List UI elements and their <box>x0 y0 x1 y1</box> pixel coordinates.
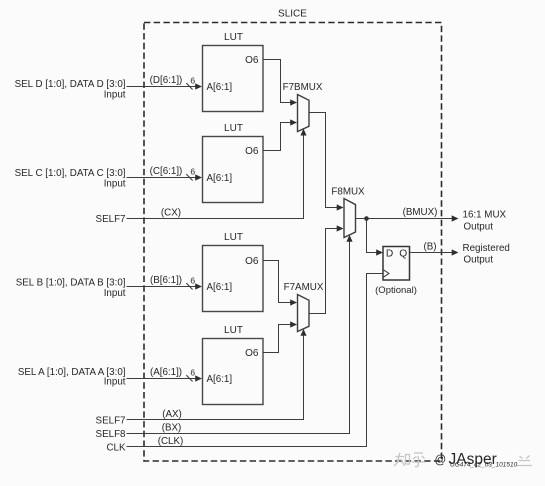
svg-text:F7AMUX: F7AMUX <box>284 282 324 293</box>
output label Registered Output <box>463 243 510 266</box>
wire input C bus (C[6:1]) <box>127 166 203 181</box>
svg-text:6: 6 <box>190 276 195 286</box>
svg-text:O6: O6 <box>245 146 259 157</box>
svg-text:(BMUX): (BMUX) <box>403 207 438 218</box>
wire F8MUX output (BMUX) <box>356 207 459 222</box>
svg-text:@: @ <box>435 455 447 467</box>
svg-text:6: 6 <box>190 76 195 86</box>
svg-text:(B[6:1]): (B[6:1]) <box>150 275 182 286</box>
svg-text:D: D <box>386 248 393 259</box>
wire LUT D O6 to F7BMUX in0 <box>263 60 297 106</box>
svg-text:(CX): (CX) <box>161 207 181 218</box>
flip-flop FF (Optional) <box>375 247 417 297</box>
svg-text:6: 6 <box>190 167 195 177</box>
svg-text:Input: Input <box>104 179 126 190</box>
svg-text:Q: Q <box>399 248 407 259</box>
svg-text:Output: Output <box>464 255 494 266</box>
svg-text:16:1 MUX: 16:1 MUX <box>463 209 507 220</box>
svg-text:SEL D [1:0], DATA D [3:0]: SEL D [1:0], DATA D [3:0] <box>15 79 126 90</box>
wire LUT C O6 to F7BMUX in1 <box>263 119 297 150</box>
input label SEL B <box>16 278 126 299</box>
watermark 知乎 @JAsper 兰 <box>394 453 425 467</box>
input label SEL C <box>15 168 126 190</box>
input label SEL A <box>18 367 126 388</box>
svg-text:(AX): (AX) <box>162 409 182 420</box>
svg-text:A[6:1]: A[6:1] <box>207 82 233 93</box>
mux F8MUX <box>331 186 365 237</box>
svg-text:O6: O6 <box>245 348 259 359</box>
svg-text:LUT: LUT <box>224 232 243 243</box>
svg-text:LUT: LUT <box>224 325 243 336</box>
svg-text:SELF7: SELF7 <box>96 416 126 427</box>
svg-text:SLICE: SLICE <box>278 9 307 20</box>
svg-text:(B): (B) <box>423 241 436 252</box>
svg-text:SELF7: SELF7 <box>96 214 126 225</box>
wire FF Q output (B) <box>410 241 459 255</box>
svg-text:Input: Input <box>104 89 126 100</box>
svg-text:UG474_c2_03_101510: UG474_c2_03_101510 <box>450 462 518 469</box>
wire CLK to FF clock <box>127 274 384 447</box>
mux F7BMUX <box>283 82 323 132</box>
svg-text:A[6:1]: A[6:1] <box>207 374 233 385</box>
mux F7AMUX <box>284 282 324 332</box>
LUT A <box>203 325 264 405</box>
svg-text:CLK: CLK <box>106 443 126 454</box>
output label 16:1 MUX Output <box>463 209 507 232</box>
svg-text:F7BMUX: F7BMUX <box>283 82 323 93</box>
LUT C <box>203 123 264 203</box>
svg-text:LUT: LUT <box>224 32 243 43</box>
junction node BMUX <box>364 216 369 221</box>
wire SELF8 (BX) to F8MUX select <box>127 235 353 434</box>
svg-text:(C[6:1]): (C[6:1]) <box>150 166 183 177</box>
svg-text:(BX): (BX) <box>162 423 182 434</box>
wire LUT B O6 to F7AMUX in0 <box>263 261 297 306</box>
svg-text:F8MUX: F8MUX <box>331 186 365 197</box>
svg-text:Output: Output <box>464 221 494 232</box>
SLICE dashed boundary <box>144 23 442 462</box>
svg-text:SEL C [1:0], DATA C [3:0]: SEL C [1:0], DATA C [3:0] <box>15 168 126 179</box>
LUT B <box>203 232 264 312</box>
wire input D bus (D[6:1]) <box>127 75 203 90</box>
svg-text:A[6:1]: A[6:1] <box>207 173 233 184</box>
svg-text:(A[6:1]): (A[6:1]) <box>150 367 182 378</box>
svg-text:(CLK): (CLK) <box>158 436 184 447</box>
wire LUT A O6 to F7AMUX in1 <box>263 321 297 352</box>
svg-text:Registered: Registered <box>463 243 510 254</box>
wire SELF7 (AX) to F7AMUX select <box>127 329 307 420</box>
wire F7BMUX output to F8MUX in0 <box>309 113 344 211</box>
svg-text:O6: O6 <box>245 55 259 66</box>
wire input B bus (B[6:1]) <box>127 275 203 290</box>
wire SELF7 (CX) to F7BMUX select <box>127 129 307 219</box>
wire input A bus (A[6:1]) <box>127 367 203 382</box>
wire F7AMUX output to F8MUX in1 <box>309 225 344 313</box>
svg-text:LUT: LUT <box>224 123 243 134</box>
watermark glyph 兰 <box>517 456 533 466</box>
input label SEL D <box>15 79 126 100</box>
svg-text:O6: O6 <box>245 256 259 267</box>
svg-text:Input: Input <box>104 288 126 299</box>
svg-text:SEL B [1:0], DATA B [3:0]: SEL B [1:0], DATA B [3:0] <box>16 278 126 289</box>
svg-text:(Optional): (Optional) <box>375 285 417 296</box>
svg-text:Input: Input <box>104 377 126 388</box>
svg-text:SELF8: SELF8 <box>96 429 127 440</box>
LUT D <box>203 32 264 112</box>
svg-text:A[6:1]: A[6:1] <box>207 282 233 293</box>
svg-text:(D[6:1]): (D[6:1]) <box>150 75 183 86</box>
svg-text:6: 6 <box>190 368 195 378</box>
wire BMUX node to FF D input <box>367 219 384 256</box>
